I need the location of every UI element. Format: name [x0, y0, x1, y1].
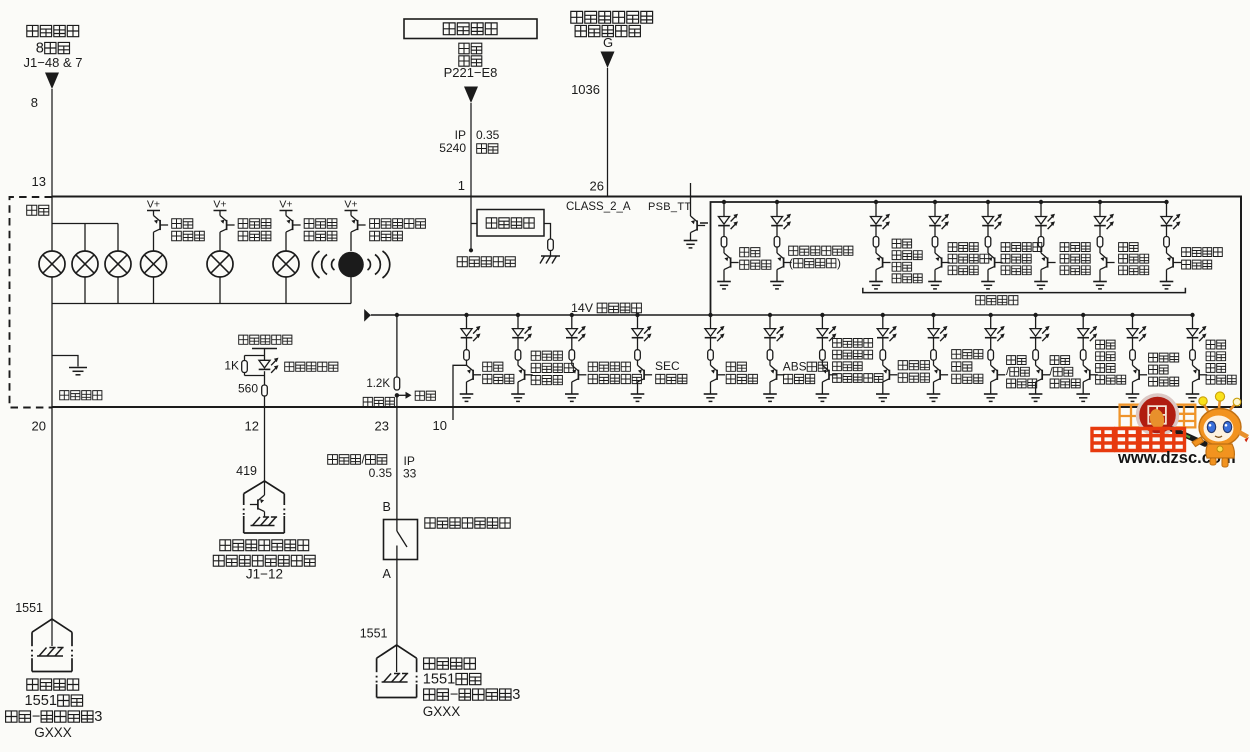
label 前雾灯指示灯(仅高级版)	[789, 246, 798, 255]
connector 仪表板灯 8接头 J1-48&7 labels	[24, 25, 83, 70]
V+ supply + driver transistor (远光指示灯)	[147, 199, 168, 252]
label 建议打开前照灯指示灯	[1001, 243, 1010, 252]
lamp bottom wires to bus	[51, 277, 53, 304]
svg-text:10: 10	[433, 418, 447, 433]
label 驾驶员气囊指示灯	[952, 350, 961, 359]
svg-text:V+: V+	[279, 199, 292, 211]
ground distribution box (left)	[32, 619, 72, 632]
label 故障指示灯	[285, 362, 294, 371]
label 制动液液面开关	[425, 518, 435, 528]
label 安全带指示灯	[898, 361, 907, 370]
svg-text:14V: 14V	[571, 301, 594, 315]
svg-text:V+: V+	[147, 199, 160, 211]
svg-text:23: 23	[375, 419, 389, 434]
wire fuse to box pin1	[470, 103, 472, 250]
V+ T-bar	[252, 348, 277, 350]
svg-text:GXXX: GXXX	[34, 725, 72, 740]
svg-text:): )	[837, 256, 841, 270]
label 车辆动态控制系统牵引力控制指示灯	[833, 339, 842, 348]
indicator unit 冷却液过热指示灯: junction, LED, resistor, transistor, ground	[1126, 313, 1147, 402]
label 机油压力过低指示灯	[1096, 340, 1105, 349]
indicator unit 燃油液面过低指示灯: junction, LED, resistor, transistor, ground	[1186, 313, 1207, 402]
svg-text:3: 3	[94, 709, 102, 725]
right-turn indicator lamp	[273, 251, 299, 277]
svg-text:V+: V+	[213, 199, 226, 211]
wire switch to ground 1551	[396, 560, 398, 646]
indicator unit 建议打开前照灯指示灯: junction, LED, resistor, transistor, ground	[981, 200, 1002, 289]
svg-text:560: 560	[238, 382, 258, 396]
svg-text:3: 3	[512, 687, 520, 703]
high-beam indicator lamp	[141, 251, 167, 277]
chassis ground rake (PCM)	[251, 525, 275, 527]
label 公里/小时指示灯	[1050, 356, 1059, 365]
svg-text:A: A	[383, 567, 392, 581]
label 电源接地	[60, 391, 69, 400]
label 备用 (spare)	[415, 391, 424, 400]
resistor 560	[262, 385, 268, 396]
label 尽快维修车辆指示灯	[588, 362, 597, 371]
label 制动液	[363, 397, 372, 406]
svg-text:P221−E8: P221−E8	[444, 65, 498, 80]
indicator unit 行李厢未关严指示灯: junction, LED, resistor, transistor, ground	[1034, 200, 1055, 289]
wire pin8 to cluster top	[51, 89, 53, 197]
wire pin12 to PCM	[264, 407, 266, 481]
svg-text:/: /	[362, 452, 366, 466]
labels 接地分配/1551接头/接地-仪表板梁3/GXXX (right)	[424, 658, 435, 669]
svg-text:419: 419	[236, 464, 257, 478]
indicator unit 英里/小时指示灯: junction, LED, resistor, transistor, ground	[984, 313, 1005, 402]
labels 接地分配/1551接头/接地-仪表板梁3/GXXX (left)	[27, 679, 38, 690]
parallel rails	[245, 355, 265, 357]
wire pin23 to switch	[396, 407, 398, 520]
label 英里/小时指示灯	[1007, 356, 1016, 365]
battery voltage wire endpoint	[469, 248, 473, 252]
wire pin12 inside box	[264, 396, 266, 407]
wire to pin 10 (备用 base)	[453, 365, 467, 420]
battery voltage tap label 蓄电池电压 (fault lamp circuit)	[239, 335, 248, 344]
indicator unit ABS故障指示灯: junction, LED, resistor, transistor, ground	[763, 313, 784, 402]
wire to 560 resistor	[264, 376, 266, 386]
resistor 1.2K	[394, 377, 400, 390]
svg-text:13: 13	[32, 174, 46, 189]
label 蓄电池电量不足指示灯	[531, 351, 540, 360]
lamp return bus	[52, 303, 351, 305]
label 燃油箱盖指示灯	[1182, 248, 1191, 257]
indicator unit 减小发动机功率指示灯: junction, LED, resistor, transistor, ground	[869, 200, 890, 289]
lamp top link wire	[52, 223, 118, 225]
chassis ground rake	[541, 255, 560, 257]
connector arrow serial data link	[601, 52, 615, 69]
power ground symbol	[69, 367, 87, 369]
bracket 仅基本版	[863, 288, 1186, 293]
svg-text:GXXX: GXXX	[423, 704, 461, 719]
power box 始终通电	[404, 19, 537, 39]
regulated voltage box 调节电压	[477, 210, 544, 237]
wire regulator to chassis ground	[544, 224, 551, 240]
svg-text:1551: 1551	[423, 672, 455, 688]
svg-text:B: B	[383, 500, 391, 514]
label 行李厢未关严指示灯	[1060, 243, 1069, 252]
watermark mascot	[1192, 392, 1249, 467]
connector 串行数据链路星形连接器 G labels	[571, 11, 653, 50]
svg-text:1551: 1551	[25, 693, 57, 709]
left-turn indicator lamp	[207, 251, 233, 277]
svg-text:20: 20	[32, 419, 46, 434]
wire to ground	[690, 233, 692, 240]
svg-text:8: 8	[31, 95, 38, 110]
indicator unit 洗涤液液面过低指示灯: junction, LED, resistor, transistor, ground	[928, 200, 949, 289]
indicator unit 车辆动态控制系统牵引力控制指示灯: junction, LED, resistor, transistor, ground	[816, 313, 837, 402]
stray tick near row1 box	[700, 222, 708, 224]
V+ supply + driver transistor (右转向指示灯)	[279, 199, 300, 252]
labels 发动机控制系统/动力系统控制模块/J1-12	[220, 540, 231, 551]
indicator unit 燃油箱盖指示灯: junction, LED, resistor, transistor, ground	[1160, 200, 1181, 289]
main cluster box outline	[52, 197, 1241, 408]
svg-text:PSB_TT: PSB_TT	[648, 201, 691, 213]
label 发声式转向指示灯	[370, 219, 380, 229]
junction + spare arrow 备用	[395, 393, 399, 397]
svg-text:−: −	[32, 709, 41, 725]
svg-text:1.2K: 1.2K	[366, 378, 390, 390]
power ground branch wire	[52, 356, 78, 367]
PSB_TT wire stub	[690, 183, 692, 216]
V+ supply + driver transistor (左转向指示灯)	[213, 199, 234, 252]
svg-text:G: G	[603, 35, 613, 50]
ground distribution box (right)	[377, 645, 417, 658]
label 变光	[27, 205, 37, 215]
indicator unit 巡航指示灯: junction, LED, resistor, transistor, ground	[717, 200, 738, 289]
indicator unit 公里/小时指示灯: junction, LED, resistor, transistor, ground	[1029, 313, 1050, 402]
label 蓄电池电压	[457, 257, 467, 267]
indicator unit 车门未关严指示灯: junction, LED, resistor, transistor, ground	[1093, 200, 1114, 289]
svg-text:J1−12: J1−12	[246, 567, 283, 582]
dashed connector boundary	[10, 197, 53, 408]
indicator unit SEC指示灯: junction, LED, resistor, transistor, ground	[631, 313, 652, 402]
14V regulated voltage bus	[371, 314, 1193, 316]
label 右转向指示灯	[304, 219, 314, 229]
indicator unit 制动指示灯: junction, LED, resistor, transistor, ground	[704, 313, 725, 402]
indicator unit 尽快维修车辆指示灯: junction, LED, resistor, transistor, ground	[565, 313, 586, 402]
svg-text:(: (	[789, 256, 793, 270]
label 左转向指示灯	[238, 219, 248, 229]
bus arrow (14V feed)	[364, 309, 371, 322]
wire label 棕黄色/白色 0.35	[328, 455, 338, 465]
regulator branch wire from pin1	[471, 223, 477, 225]
label 远光指示灯	[172, 219, 182, 229]
illumination lamp 1	[39, 251, 65, 277]
indicator unit 安全带指示灯: junction, LED, resistor, transistor, ground	[876, 313, 897, 402]
wire pin23 inside box	[396, 395, 398, 407]
svg-text:0.35: 0.35	[476, 128, 500, 142]
svg-text:12: 12	[245, 419, 259, 434]
svg-text:33: 33	[403, 467, 417, 481]
wire down to 1.2K	[396, 315, 398, 377]
svg-text:1551: 1551	[15, 601, 43, 615]
V+ supply + driver transistor (发声式转向指示灯)	[344, 199, 365, 252]
resistor 1K	[242, 361, 248, 373]
connector arrow (instrument panel lamps feed)	[45, 73, 59, 90]
svg-text:1551: 1551	[360, 627, 388, 641]
watermark 找芯片 outlined text	[1120, 405, 1196, 430]
svg-text:1: 1	[458, 178, 465, 193]
svg-text:ABS: ABS	[783, 359, 807, 373]
svg-text:CLASS_2_A: CLASS_2_A	[566, 201, 631, 213]
label 制动指示灯	[726, 362, 735, 371]
svg-text:IP: IP	[455, 128, 466, 142]
label 配电/熔丝/P221-E8	[444, 43, 498, 80]
connector arrow fuse feed	[464, 87, 478, 104]
indicator unit 蓄电池电量不足指示灯: junction, LED, resistor, transistor, ground	[511, 313, 532, 402]
transistor (PCM input)	[264, 481, 266, 495]
svg-text:1K: 1K	[224, 359, 239, 373]
svg-text:26: 26	[590, 179, 604, 194]
label 备用指示灯	[483, 362, 492, 371]
wire pin20 to ground G	[51, 407, 53, 619]
illumination lamp 2	[72, 251, 98, 277]
wire 1036 down to box	[607, 68, 609, 197]
indicator unit 机油压力过低指示灯: junction, LED, resistor, transistor, ground	[1076, 313, 1097, 402]
audible turn signal speaker	[338, 252, 364, 278]
label 车门未关严指示灯	[1119, 243, 1128, 252]
svg-text:V+: V+	[344, 199, 357, 211]
svg-text:−: −	[450, 687, 459, 703]
label 燃油液面过低指示灯	[1206, 340, 1215, 349]
transistor PSB_TT	[691, 216, 698, 222]
PCM module symbol	[244, 481, 285, 494]
resistor (regulator ground)	[548, 239, 554, 251]
label 洗涤液液面过低指示灯	[948, 243, 957, 252]
ground (PSB_TT)	[684, 240, 698, 242]
brake fluid level switch 制动液液面开关	[384, 520, 418, 560]
row1 indicator box outline	[711, 202, 1167, 315]
indicator unit 驾驶员气囊指示灯: junction, LED, resistor, transistor, ground	[927, 313, 948, 402]
svg-text:5240: 5240	[439, 141, 466, 155]
svg-text:J1−48 & 7: J1−48 & 7	[24, 55, 83, 70]
watermark 维库一下 red text	[1092, 429, 1185, 451]
label 巡航指示灯	[740, 248, 749, 257]
svg-text:SEC: SEC	[655, 359, 680, 373]
indicator unit 备用指示灯: junction, LED, resistor, transistor, ground	[460, 313, 481, 402]
wire cluster left edge down to pin20	[51, 304, 53, 408]
fault indicator LED 故障指示灯	[259, 360, 270, 368]
label 减小发动机功率指示灯	[892, 239, 901, 248]
brake fluid branch: junction	[395, 313, 399, 317]
label 冷却液过热指示灯	[1149, 353, 1158, 362]
watermark magnifier	[1138, 395, 1178, 435]
illumination lamp 3	[105, 251, 131, 277]
svg-text:1036: 1036	[571, 82, 600, 97]
svg-text:0.35: 0.35	[369, 466, 393, 480]
indicator unit 前雾灯指示灯: junction, LED, resistor, transistor, ground	[770, 200, 791, 289]
wire label IP 5240 / 0.35 橙色	[439, 128, 499, 155]
